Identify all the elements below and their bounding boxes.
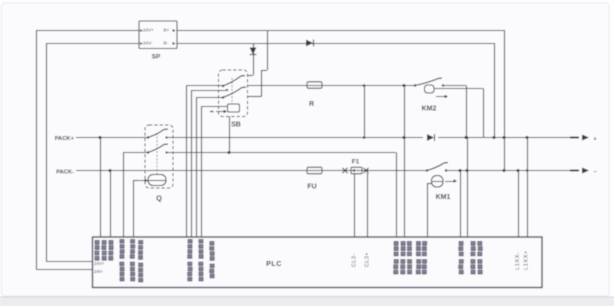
wire: PACK+ sense tap — [99, 136, 102, 139]
wire: L1 tap from PACK- — [517, 169, 520, 172]
wire: SB right branch to contact 2 — [261, 70, 263, 97]
SB linkage — [231, 78, 233, 104]
wire: SB c1 left to PLC — [187, 85, 224, 87]
svg-text:24V-: 24V- — [94, 269, 104, 274]
svg-text:CL3+: CL3+ — [365, 252, 371, 267]
svg-text:B-: B- — [164, 41, 169, 46]
svg-text:Q: Q — [156, 194, 162, 203]
svg-text:R: R — [309, 101, 314, 108]
contactor KM2 contact — [415, 78, 442, 86]
breaker Q pole 2 — [148, 144, 168, 153]
wire: right drop rail 24V- to M+ bus — [494, 43, 496, 138]
wire: rail to SB diode branch — [253, 43, 255, 75]
svg-text:KM2: KM2 — [422, 106, 437, 113]
wire: 24V+ rail left segment — [36, 30, 139, 32]
svg-text:24V+: 24V+ — [94, 261, 105, 266]
svg-text:L1XX+: L1XX+ — [524, 250, 530, 270]
svg-text:PLC: PLC — [266, 259, 282, 268]
PLC label: output voltage sense — [459, 241, 464, 246]
svg-text:PACK+: PACK+ — [55, 136, 75, 142]
SB button element — [228, 104, 240, 112]
wire: 24V- rail left segment — [46, 43, 139, 45]
contactor KM2 coil — [425, 85, 435, 93]
wire: R output tap down to PACK+ bus — [363, 84, 366, 87]
PLC label: emergency stop inputs — [188, 239, 193, 243]
wire: SB bottom drop to mid bus — [229, 117, 231, 153]
contactor KM2 arrow — [436, 96, 446, 98]
svg-text:24V+: 24V+ — [143, 28, 154, 33]
wire: left inner drop to PLC 24V- — [46, 43, 48, 261]
svg-text:SB: SB — [231, 122, 241, 129]
svg-text:24V-: 24V- — [143, 41, 153, 46]
wire: Q pole2 left to PLC — [123, 152, 148, 154]
wire: Q trip coil to PLC — [133, 180, 138, 182]
fuse FU — [307, 167, 322, 173]
wire: rail 24V+ branch to SB — [267, 30, 269, 70]
svg-text:F1: F1 — [352, 159, 360, 166]
diode D — [427, 134, 434, 141]
output arrow M- — [570, 170, 579, 172]
power supply SP — [139, 21, 177, 49]
breaker Q trip arrow — [137, 180, 146, 182]
diode on 24V- rail — [306, 40, 313, 47]
wire: PACK- bus — [76, 170, 307, 172]
svg-text:KM1: KM1 — [436, 194, 451, 201]
PLC label: breaker status / trip control — [119, 239, 124, 243]
resistor R — [307, 82, 322, 88]
wire: PACK- sense tap — [109, 169, 112, 172]
contactor KM1 contact — [427, 163, 448, 171]
wire: F1 sense taps to PLC — [353, 169, 355, 171]
wire: KM2 right corner down to PACK+ bus — [442, 84, 444, 86]
wire: L2 tap from PACK+ — [527, 138, 529, 238]
pushbutton SB dashed box — [219, 70, 248, 117]
breaker Q pole 1 — [148, 129, 168, 138]
svg-text:+: + — [594, 136, 597, 142]
wire: left outer drop to PLC 24V+ — [36, 30, 38, 269]
wire: KM2 line tap down to PLC — [403, 84, 406, 87]
breaker Q linkage — [156, 133, 158, 174]
wire: bus sense tap right 2 — [466, 169, 469, 172]
wire: M- junction from rail — [503, 169, 506, 172]
PLC label: main contactor control — [416, 241, 421, 246]
PLC label: battery voltage sense — [95, 240, 100, 245]
wire: SB aux left to PLC — [226, 89, 228, 91]
wire: SB c2 left to PLC — [196, 97, 223, 99]
svg-text:PACK-: PACK- — [56, 170, 74, 176]
wire: R to KM2 — [322, 85, 415, 87]
svg-text:L1XX-: L1XX- — [515, 252, 521, 270]
wire: 24V- rail right segment — [177, 43, 494, 45]
wire: SB to resistor R — [247, 85, 307, 87]
SB contact 2 — [223, 87, 246, 98]
SB contact 1 — [223, 76, 245, 87]
wire: bus sense tap right 1 — [459, 169, 462, 172]
current sensor F1 — [342, 168, 347, 173]
junction dots PACK+ bus — [493, 136, 496, 139]
wire: KM1 coil to PLC — [427, 183, 432, 185]
wire: SB button left to PLC — [201, 106, 228, 108]
bottom gray strip — [0, 298, 614, 306]
breaker Q dashed box — [145, 125, 173, 188]
wire: 24V+ rail right segment — [177, 30, 504, 32]
wire: right drop rail 24V+ to M- bus — [504, 30, 506, 171]
output arrow M+ — [570, 137, 579, 139]
contactor KM1 arrow — [445, 181, 455, 183]
svg-text:FU: FU — [307, 184, 316, 191]
PLC controller box — [93, 237, 543, 288]
PLC label: precharge contactor control — [394, 241, 399, 246]
wire: KM2 coil branch down to PACK+ bus — [434, 88, 483, 90]
wire: PACK+ bus — [76, 137, 148, 139]
contactor KM1 coil — [432, 176, 444, 188]
breaker Q trip coil — [148, 175, 166, 186]
svg-text:B+: B+ — [164, 28, 170, 33]
svg-text:CL3-: CL3- — [352, 253, 358, 267]
wire: mid bus drop to PLC — [396, 153, 398, 238]
SB button arrow — [210, 111, 214, 113]
svg-text:SP: SP — [152, 54, 161, 61]
wire: Q pole2 right / mid bus B — [167, 152, 397, 154]
svg-text:−: − — [594, 169, 597, 175]
